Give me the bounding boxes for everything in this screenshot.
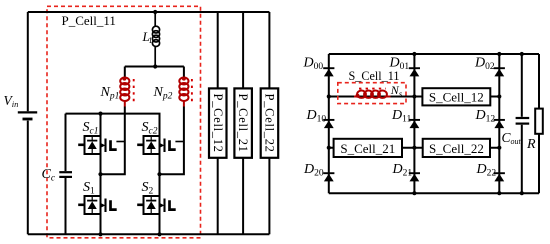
- node top of L1: [153, 10, 157, 14]
- svg-text:P_Cell_21: P_Cell_21: [236, 94, 250, 153]
- svg-text:S_Cell_12: S_Cell_12: [429, 89, 484, 104]
- wire bridge top rail: [66, 114, 160, 136]
- wire winding top header: [125, 66, 184, 68]
- cell S_Cell_21 box: [334, 139, 402, 157]
- node row2 colB: [412, 146, 416, 150]
- node bottom rail Cout: [520, 191, 524, 195]
- polarity dot Np1: [122, 77, 126, 81]
- wire S2 source drop: [159, 214, 161, 234]
- winding Np1: [120, 78, 129, 107]
- transistor S1: [78, 196, 117, 214]
- block P_Cell_22: [268, 12, 270, 88]
- source Vin battery: [18, 111, 37, 113]
- svg-text:D02: D02: [474, 56, 495, 73]
- block P_Cell_12: [217, 12, 219, 88]
- transistor Sc2: [137, 136, 176, 154]
- node row2 colC: [497, 146, 501, 150]
- svg-text:D20: D20: [303, 162, 324, 179]
- svg-text:P_Cell_12: P_Cell_12: [211, 94, 225, 153]
- core line Np1: [133, 79, 135, 102]
- svg-text:Sc1: Sc1: [83, 120, 99, 137]
- wire row 2: [329, 147, 500, 149]
- polarity dot Np2: [182, 77, 186, 81]
- svg-text:P_Cell_22: P_Cell_22: [263, 94, 277, 153]
- diode D02: [494, 68, 505, 76]
- node top rail colB: [412, 52, 416, 56]
- node Sc1 drain: [98, 112, 102, 116]
- node row1 colB: [412, 94, 416, 98]
- wire Cc branch lower: [65, 178, 67, 234]
- wire left input branch lower: [27, 121, 29, 235]
- wire S1 source drop: [100, 214, 102, 234]
- node bottom rail colC: [497, 191, 501, 195]
- node row1 colC: [497, 94, 501, 98]
- svg-text:S_Cell_22: S_Cell_22: [429, 141, 484, 156]
- node top rail colC: [497, 52, 501, 56]
- diode D10: [323, 120, 334, 128]
- wire Sc1 gate stub: [116, 141, 124, 143]
- svg-text:Ns: Ns: [390, 83, 403, 98]
- svg-text:Vin: Vin: [4, 93, 19, 109]
- svg-text:D10: D10: [306, 108, 327, 125]
- wire Np1 top lead: [124, 67, 126, 78]
- transistor Sc1: [78, 136, 117, 154]
- wire Sc2 gate stub: [175, 141, 184, 143]
- diode D00: [323, 68, 334, 76]
- wire bottom rail: [28, 233, 270, 235]
- capacitor Cout: [521, 54, 523, 117]
- diode D20: [323, 173, 334, 181]
- cell S_Cell_22 box: [423, 139, 490, 157]
- wire Np1 bottom lead: [101, 107, 125, 175]
- svg-text:D21: D21: [392, 162, 413, 179]
- node bottom of L1: [153, 64, 157, 68]
- wire top rail: [28, 11, 270, 13]
- inductor L1: [152, 12, 159, 67]
- svg-text:S_Cell_21: S_Cell_21: [340, 141, 395, 156]
- svg-text:L1: L1: [142, 29, 153, 45]
- wire column B: [413, 54, 415, 193]
- wire column C: [498, 54, 500, 193]
- core line Ns: [359, 88, 386, 90]
- svg-text:Cout: Cout: [502, 130, 522, 146]
- svg-text:Sc2: Sc2: [142, 120, 158, 137]
- wire left input branch upper: [27, 12, 29, 111]
- node S2 source: [157, 232, 161, 236]
- resistor R: [538, 54, 540, 193]
- svg-text:D11: D11: [391, 108, 412, 125]
- node top rail Cout: [520, 52, 524, 56]
- block P_Cell_21: [242, 12, 244, 88]
- diode D22: [494, 173, 505, 181]
- node row1 colA: [327, 94, 331, 98]
- P_Cell_11 red dashed box: [47, 6, 201, 238]
- svg-text:S1: S1: [83, 180, 95, 197]
- diode D21: [409, 173, 420, 181]
- cell S_Cell_12 box: [414, 96, 499, 98]
- wire output bottom rail: [329, 192, 539, 194]
- node midpoint 1: [98, 172, 102, 176]
- core line Np2: [191, 79, 193, 102]
- svg-text:S2: S2: [142, 180, 154, 197]
- svg-text:S_Cell_11: S_Cell_11: [349, 69, 400, 83]
- svg-text:Np1: Np1: [100, 85, 120, 102]
- svg-text:R: R: [526, 137, 536, 152]
- wire Np2 bottom lead: [160, 107, 184, 175]
- wire column A: [328, 54, 330, 193]
- diode D12: [494, 120, 505, 128]
- wire row 1: [329, 96, 415, 98]
- wire Cc branch upper: [65, 114, 67, 171]
- diode D11: [409, 120, 420, 128]
- transistor S2: [137, 196, 176, 214]
- svg-text:P_Cell_11: P_Cell_11: [62, 13, 116, 28]
- winding Np2: [179, 78, 188, 107]
- wire Sc1 source to midpoint: [100, 154, 102, 196]
- svg-text:D22: D22: [476, 162, 497, 179]
- node midpoint 2: [157, 172, 161, 176]
- svg-text:D00: D00: [303, 56, 324, 73]
- diode D01: [409, 68, 420, 76]
- winding Ns: [354, 91, 391, 98]
- svg-text:Cc: Cc: [42, 167, 56, 184]
- wire Sc2 source to midpoint: [159, 154, 161, 196]
- node bottom rail colB: [412, 191, 416, 195]
- node S1 source: [98, 232, 102, 236]
- wire Sc1 drain drop: [100, 114, 102, 136]
- cell S_Cell_11 red dashed box: [338, 83, 406, 104]
- polarity dot Ns: [356, 94, 360, 98]
- svg-text:D12: D12: [475, 108, 496, 125]
- wire Np2 top lead: [183, 67, 185, 78]
- node row2 colA: [327, 146, 331, 150]
- svg-text:Np2: Np2: [153, 85, 173, 102]
- wire output top rail: [329, 53, 539, 55]
- capacitor Cc: [59, 171, 72, 173]
